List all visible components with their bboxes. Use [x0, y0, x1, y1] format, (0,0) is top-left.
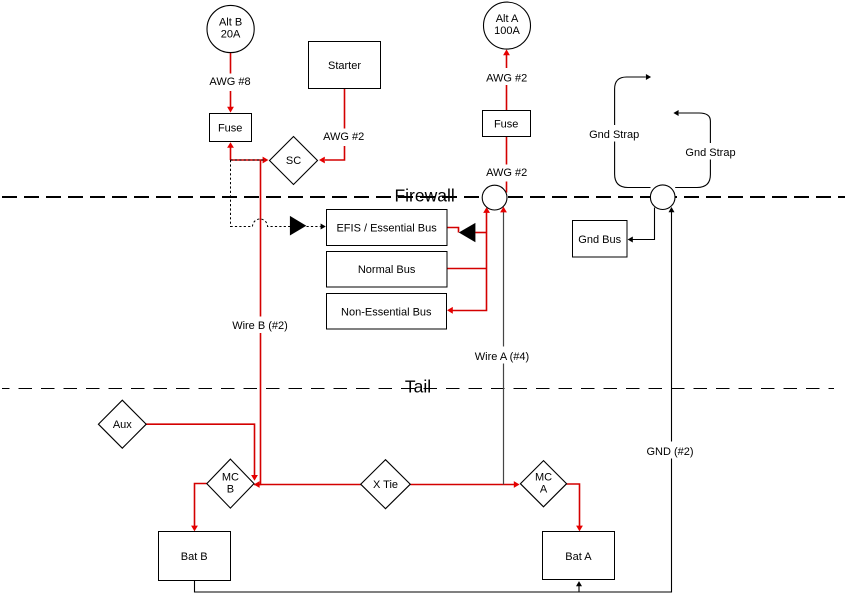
Fuse box right	[483, 111, 531, 137]
tail boundary dashed line	[2, 388, 834, 390]
wire arrow up into firewall circle (wire A)	[500, 207, 507, 213]
alternator Alt B circle	[207, 5, 254, 52]
label Wire A (#4)	[472, 347, 532, 364]
svg-text:Wire A (#4): Wire A (#4)	[475, 351, 529, 363]
label Gnd Strap left	[589, 125, 640, 142]
svg-text:Normal Bus: Normal Bus	[358, 264, 416, 276]
svg-text:Alt B: Alt B	[219, 17, 242, 29]
svg-text:Starter: Starter	[328, 60, 361, 72]
svg-text:Fuse: Fuse	[218, 122, 242, 134]
wire essential feed vertical below firewall circle	[453, 212, 487, 311]
wire arrow into Non-Essential Bus	[447, 307, 453, 314]
Normal Bus box	[327, 252, 448, 288]
Non-Essential Bus box	[327, 294, 447, 330]
wire arrow right at left gnd strap end	[646, 74, 651, 80]
wire arrow into Alt A bottom	[503, 49, 510, 55]
wire fuse to SC horizontal	[231, 159, 263, 161]
label AWG #2 (firewall feed)	[485, 165, 529, 182]
alternator Alt A circle	[484, 2, 531, 49]
wire arrow into fuse top	[227, 107, 234, 113]
dotted feed from diode to EFIS	[307, 226, 321, 228]
wire arrow into Gnd Bus right edge	[628, 237, 633, 243]
svg-text:MC: MC	[535, 471, 552, 483]
svg-text:X Tie: X Tie	[373, 479, 398, 491]
svg-text:Gnd Bus: Gnd Bus	[578, 234, 621, 246]
svg-text:Tail: Tail	[405, 377, 431, 397]
label AWG #2 (starter)	[322, 129, 366, 147]
contactor MC B diamond	[207, 459, 254, 508]
contactor SC diamond	[270, 137, 318, 185]
wire Fuse down to firewall pass-through (AWG #2)	[506, 137, 508, 193]
svg-text:AWG #2: AWG #2	[486, 73, 527, 85]
wire Bat A ground tap	[578, 586, 580, 593]
dotted alternate feed horizontal with hop over wire B	[231, 219, 291, 227]
label AWG #8	[208, 74, 253, 92]
Fuse box left	[210, 114, 252, 142]
gnd strap left	[615, 77, 651, 188]
svg-text:Gnd Strap: Gnd Strap	[589, 129, 639, 141]
svg-text:AWG #2: AWG #2	[486, 167, 527, 179]
label GND (#2)	[645, 442, 695, 459]
dotted alternate feed vertical	[230, 160, 232, 227]
svg-text:20A: 20A	[221, 29, 241, 41]
svg-text:B: B	[227, 484, 234, 496]
Bat B box	[159, 532, 231, 581]
wire arrow left at right gnd strap end	[673, 110, 678, 116]
label AWG #2 (alt A)	[485, 68, 529, 85]
wire arrow into MC B right vertex (from wire B)	[254, 481, 260, 488]
svg-text:Aux: Aux	[113, 419, 132, 431]
wire Normal Bus branch	[447, 268, 487, 270]
wire arrow into EFIS left edge	[321, 224, 326, 230]
wire arrow up into right firewall circle	[669, 207, 675, 212]
Bat A box	[543, 532, 615, 580]
wire arrow into Bat A top	[576, 526, 583, 532]
wire MC A to Bat A	[567, 484, 580, 527]
Starter box	[309, 42, 381, 89]
wire A (#4) gray vertical	[503, 212, 505, 485]
gnd strap right	[675, 113, 710, 188]
wire arrow up into Bat A bottom	[576, 581, 582, 586]
contactor X Tie diamond	[361, 460, 411, 509]
wire arrow into SC left vertex	[263, 157, 269, 164]
svg-text:AWG #8: AWG #8	[209, 76, 250, 88]
dotted alternate feed overlay on fuse-SC wire	[231, 159, 267, 161]
diode D1 (alternate feed, points right)	[290, 216, 306, 236]
svg-text:GND (#2): GND (#2)	[646, 446, 693, 458]
wire arrow down into MC B junction	[251, 475, 258, 481]
wire EFIS Bus to diode tip	[447, 228, 459, 233]
wire Aux to MC B junction	[146, 424, 255, 476]
svg-text:Non-Essential Bus: Non-Essential Bus	[341, 306, 432, 318]
wire arrow into Bat B top	[191, 526, 198, 532]
svg-text:Gnd Strap: Gnd Strap	[685, 147, 735, 159]
wire X Tie to MC A	[410, 484, 514, 486]
Gnd Bus box	[573, 221, 628, 258]
svg-text:Alt A: Alt A	[496, 13, 519, 25]
wire AWG #8 Alt B to Fuse	[230, 53, 232, 108]
wire GND (#2) ground rail	[195, 212, 672, 593]
wire arrow into fuse bottom	[227, 142, 234, 148]
firewall pass-through left circle	[482, 185, 507, 210]
label Wire B (#2)	[231, 317, 290, 334]
svg-text:Firewall: Firewall	[394, 186, 454, 206]
wire MC B to Bat B	[195, 484, 207, 527]
svg-text:Bat B: Bat B	[181, 551, 208, 563]
svg-text:A: A	[540, 484, 548, 496]
wire arrow into MC A left vertex	[514, 481, 520, 488]
wire fuse bottom up-arrow segment	[230, 147, 232, 161]
svg-text:MC: MC	[222, 471, 239, 483]
EFIS / Essential Bus box	[327, 210, 448, 246]
wire MC B to X Tie	[254, 484, 361, 486]
wire arrow into SC right vertex	[319, 157, 325, 164]
wire diode branch to vertical	[475, 232, 487, 234]
label Gnd Strap right	[685, 143, 736, 160]
svg-text:100A: 100A	[494, 25, 520, 37]
wire B (#2) main vertical	[259, 160, 261, 485]
svg-text:Bat A: Bat A	[565, 551, 592, 563]
svg-text:EFIS / Essential Bus: EFIS / Essential Bus	[336, 223, 437, 235]
Aux diamond	[98, 400, 146, 448]
wire Starter to SC	[325, 89, 345, 160]
wire arrow up into firewall circle (essential feed)	[483, 207, 490, 213]
svg-text:SC: SC	[286, 155, 301, 167]
diode D2 (essential feed, points left)	[459, 223, 476, 242]
svg-text:Fuse: Fuse	[494, 119, 518, 131]
firewall boundary dashed line	[2, 196, 845, 198]
svg-text:AWG #2: AWG #2	[323, 131, 364, 143]
wire Fuse to Alt A (AWG #2)	[506, 55, 508, 111]
contactor MC A diamond	[520, 461, 566, 507]
wire firewall circle to Gnd Bus	[633, 208, 655, 240]
svg-text:Wire B (#2): Wire B (#2)	[232, 320, 288, 332]
firewall pass-through right circle	[650, 185, 675, 210]
